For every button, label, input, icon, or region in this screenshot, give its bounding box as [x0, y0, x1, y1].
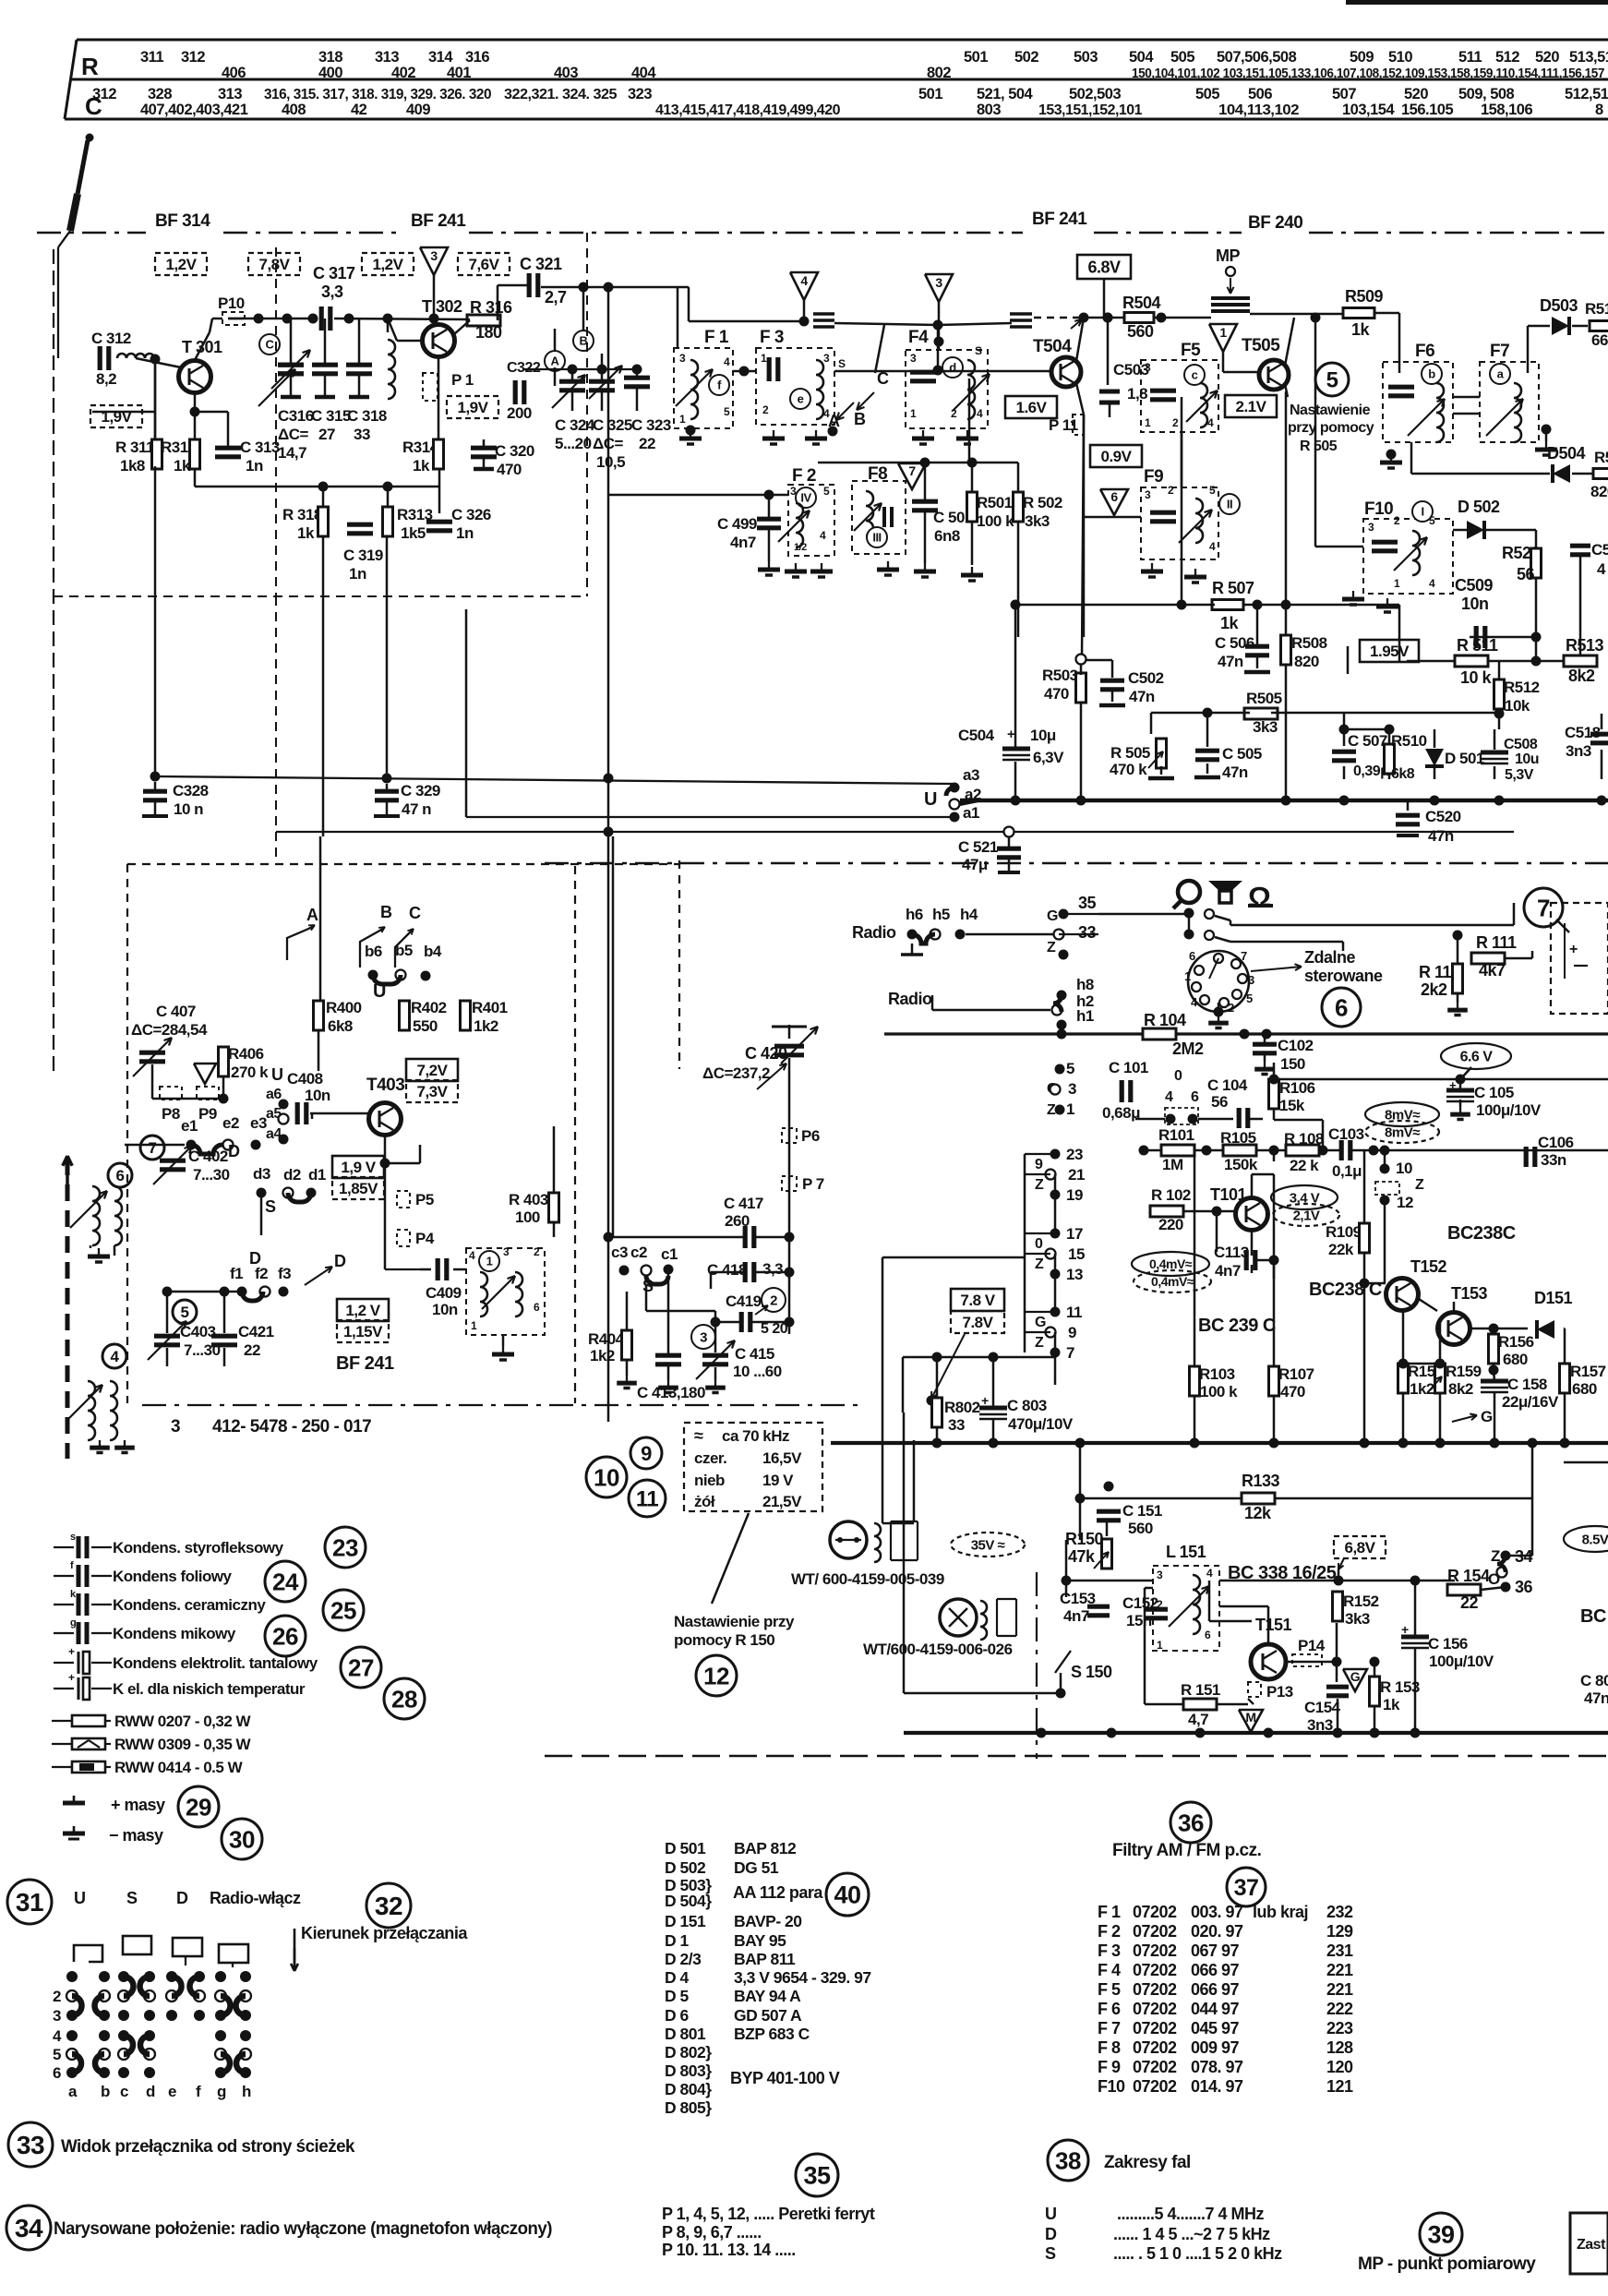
- wire F10 to D502: [1453, 529, 1467, 532]
- svg-text:C 325: C 325: [593, 416, 632, 434]
- svg-text:2: 2: [1394, 514, 1400, 527]
- svg-text:121: 121: [1326, 2077, 1353, 2096]
- svg-text:2: 2: [951, 407, 957, 420]
- svg-text:10: 10: [594, 1463, 619, 1491]
- voltage 1.95V: [1360, 640, 1419, 662]
- svg-text:T151: T151: [1255, 1616, 1292, 1634]
- voltage 2.1V: [1225, 395, 1277, 417]
- resistor R152: [1333, 1592, 1343, 1621]
- svg-text:c3: c3: [611, 1244, 628, 1261]
- svg-text:7,8V: 7,8V: [259, 256, 291, 273]
- F3 cap: [767, 357, 772, 381]
- svg-text:328: 328: [148, 86, 172, 102]
- svg-text:Narysowane położenie: radio: Narysowane położenie: radio wyłączone (m…: [54, 2219, 552, 2239]
- emitter to F9: [1084, 516, 1141, 519]
- svg-text:2: 2: [53, 1988, 61, 2005]
- resistor R156: [1489, 1334, 1499, 1364]
- svg-text:D: D: [334, 1252, 346, 1270]
- trunk x659: [607, 287, 610, 1422]
- svg-text:C 326: C 326: [451, 506, 491, 523]
- svg-text:1.6V: 1.6V: [1016, 399, 1048, 416]
- svg-text:1,2 V: 1,2 V: [345, 1302, 380, 1319]
- svg-text:6k8: 6k8: [328, 1017, 353, 1035]
- resistor R400: [314, 1001, 324, 1030]
- svg-text:156.105: 156.105: [1401, 102, 1453, 118]
- svg-text:020. 97: 020. 97: [1191, 1922, 1243, 1941]
- svg-text:U: U: [373, 981, 386, 1002]
- svg-text:D 1: D 1: [665, 1931, 690, 1950]
- rail over filters: [689, 320, 804, 323]
- svg-text:33: 33: [1078, 923, 1097, 942]
- leader to nastawienie: [712, 1513, 749, 1604]
- svg-text:470: 470: [1044, 685, 1069, 703]
- svg-text:4: 4: [469, 1249, 475, 1262]
- svg-text:501: 501: [918, 86, 942, 102]
- legend - masy: [73, 1826, 76, 1833]
- svg-text:F 1: F 1: [1098, 1903, 1121, 1921]
- wire bottoms to bus: [1343, 766, 1346, 779]
- svg-text:+: +: [1449, 1078, 1457, 1092]
- svg-text:158,106: 158,106: [1481, 102, 1532, 118]
- heavy bus y1877: [904, 1731, 1608, 1735]
- svg-text:żół: żół: [694, 1493, 715, 1510]
- wire T504 emitter down: [1082, 415, 1084, 659]
- svg-text:1,8: 1,8: [1127, 385, 1147, 403]
- svg-text:b: b: [1428, 367, 1435, 381]
- bus y1584 right: [1564, 1461, 1608, 1464]
- svg-text:33: 33: [948, 1416, 965, 1434]
- left coils 4: [88, 1381, 95, 1440]
- voltage 1,9V T302: [447, 396, 498, 418]
- svg-text:R401: R401: [472, 999, 508, 1016]
- svg-text:Zast: Zast: [1577, 2237, 1606, 2253]
- dash top big box: [127, 863, 679, 865]
- svg-text:10 n: 10 n: [174, 800, 203, 818]
- wire D504: [1410, 442, 1413, 474]
- svg-text:318: 318: [318, 49, 342, 66]
- wire y1500: [927, 1396, 937, 1406]
- svg-text:C 499: C 499: [717, 515, 757, 533]
- svg-text:560: 560: [1128, 1520, 1153, 1537]
- C499 ground: [768, 561, 770, 570]
- svg-text:MP - punkt pomiarowy: MP - punkt pomiarowy: [1358, 2254, 1536, 2274]
- filter box osc: [466, 1248, 545, 1335]
- svg-text:C 320: C 320: [495, 442, 534, 460]
- rail mid: [834, 323, 938, 325]
- svg-text:3: 3: [171, 1417, 180, 1437]
- svg-text:10: 10: [1396, 1160, 1412, 1177]
- svg-text:a3: a3: [963, 766, 979, 784]
- svg-text:4: 4: [800, 273, 808, 288]
- wires T301 area: [194, 393, 197, 439]
- svg-text:6: 6: [1191, 1089, 1199, 1105]
- F10 ground: [1352, 591, 1354, 599]
- svg-text:313: 313: [375, 49, 399, 66]
- svg-text:C 521: C 521: [958, 838, 998, 856]
- voltage 1.6V: [1005, 396, 1057, 418]
- svg-text:Kondens. ceramiczny: Kondens. ceramiczny: [113, 1596, 266, 1614]
- svg-text:P9: P9: [198, 1105, 217, 1123]
- voltage 1,9V 1,85V: [332, 1156, 384, 1178]
- capacitor C326: [426, 520, 452, 524]
- svg-text:3: 3: [430, 248, 438, 263]
- svg-text:313: 313: [218, 86, 242, 102]
- capacitor C415: [702, 1353, 728, 1358]
- dashed box 300 section: [275, 247, 277, 596]
- svg-text:Zdalne: Zdalne: [1304, 948, 1355, 967]
- wire R509 right: [1374, 312, 1399, 315]
- svg-text:104,113,102: 104,113,102: [1218, 102, 1299, 118]
- wire R503 column: [1080, 703, 1083, 800]
- svg-text:34: 34: [15, 2214, 43, 2242]
- svg-text:BAP 811: BAP 811: [734, 1950, 796, 1968]
- svg-text:R501: R501: [977, 494, 1013, 511]
- svg-text:C: C: [409, 904, 421, 922]
- svg-text:21,5V: 21,5V: [762, 1493, 802, 1510]
- svg-text:42: 42: [351, 102, 367, 118]
- capacitor C520: [1407, 800, 1410, 811]
- svg-text:47n: 47n: [1129, 688, 1155, 705]
- svg-text:19 V: 19 V: [762, 1472, 794, 1489]
- cap group wires: [554, 367, 557, 386]
- svg-text:d: d: [146, 2083, 155, 2100]
- svg-text:S: S: [126, 1889, 138, 1907]
- svg-text:lub kraj: lub kraj: [1253, 1903, 1308, 1921]
- svg-text:AA 112 para: AA 112 para: [733, 1883, 823, 1902]
- circ 34: [6, 2206, 51, 2250]
- svg-text:1: 1: [1394, 577, 1400, 590]
- svg-text:820: 820: [1294, 653, 1319, 670]
- svg-text:BF 314: BF 314: [155, 211, 210, 231]
- icon dial lamp: [1178, 881, 1200, 903]
- svg-text:406: 406: [222, 65, 246, 81]
- svg-text:R103: R103: [1199, 1365, 1235, 1383]
- svg-text:6: 6: [1110, 489, 1118, 504]
- svg-text:S: S: [975, 344, 982, 357]
- svg-text:223: 223: [1326, 2019, 1353, 2038]
- svg-text:413,415,417,418,419,499,420: 413,415,417,418,419,499,420: [655, 102, 840, 118]
- svg-text:22μ/16V: 22μ/16V: [1502, 1393, 1559, 1411]
- svg-text:R 104: R 104: [1144, 1011, 1186, 1029]
- svg-text:F5: F5: [1181, 341, 1201, 360]
- wire y1246: [1143, 1149, 1161, 1152]
- vertical feeds: [154, 466, 157, 776]
- svg-text:R510: R510: [1391, 732, 1427, 750]
- svg-text:C 105: C 105: [1474, 1084, 1514, 1101]
- svg-text:F 2: F 2: [792, 466, 816, 486]
- svg-text:a1: a1: [963, 804, 979, 822]
- svg-text:1k2: 1k2: [474, 1017, 498, 1035]
- svg-text:16,5V: 16,5V: [762, 1449, 802, 1467]
- svg-text:C 415: C 415: [735, 1345, 774, 1363]
- svg-text:D151: D151: [1534, 1289, 1573, 1307]
- svg-text:6: 6: [1205, 1629, 1211, 1641]
- svg-text:R101: R101: [1158, 1126, 1194, 1144]
- svg-text:5: 5: [1246, 992, 1253, 1005]
- svg-text:4: 4: [1165, 1089, 1173, 1105]
- svg-text:29: 29: [186, 1793, 211, 1821]
- svg-text:4n7: 4n7: [1063, 1607, 1089, 1625]
- svg-text:P6: P6: [801, 1127, 820, 1145]
- svg-text:12: 12: [703, 1662, 729, 1689]
- svg-text:1,2V: 1,2V: [373, 256, 404, 273]
- svg-text:220: 220: [1158, 1216, 1183, 1233]
- svg-text:1n: 1n: [349, 565, 366, 583]
- svg-text:504: 504: [1129, 49, 1154, 66]
- capacitor C318: [346, 363, 372, 367]
- svg-text:R 154: R 154: [1447, 1567, 1490, 1585]
- svg-text:F 3: F 3: [760, 328, 784, 347]
- wires P8 P9: [152, 1098, 223, 1100]
- svg-text:R503: R503: [1042, 667, 1078, 684]
- svg-text:c: c: [1192, 368, 1198, 382]
- coil near T302: [388, 340, 395, 399]
- svg-text:F10: F10: [1364, 499, 1393, 519]
- svg-text:505: 505: [1195, 86, 1219, 102]
- voltage 7,2V 7,3V: [406, 1059, 458, 1081]
- svg-text:I: I: [1421, 505, 1423, 519]
- wires T101: [1183, 1210, 1235, 1213]
- svg-text:D503: D503: [1540, 296, 1578, 315]
- svg-text:24: 24: [272, 1568, 299, 1595]
- svg-text:1,15V: 1,15V: [343, 1323, 383, 1340]
- svg-text:C502: C502: [1128, 669, 1164, 687]
- svg-text:7: 7: [1537, 894, 1550, 921]
- svg-text:1: 1: [761, 352, 767, 365]
- svg-text:1k: 1k: [297, 524, 315, 542]
- svg-text:4: 4: [1207, 416, 1214, 429]
- svg-text:231: 231: [1326, 1941, 1353, 1960]
- svg-text:Ω: Ω: [1248, 881, 1270, 913]
- svg-text:21: 21: [1068, 1166, 1085, 1184]
- svg-text:509: 509: [1350, 49, 1374, 66]
- svg-text:C316: C316: [278, 407, 314, 425]
- wire R403: [553, 1126, 556, 1193]
- svg-text:F 2: F 2: [1098, 1922, 1121, 1941]
- svg-text:Radio-włącz: Radio-włącz: [210, 1889, 301, 1907]
- svg-text:22k: 22k: [1328, 1241, 1354, 1258]
- circ 35: [796, 2154, 838, 2196]
- svg-text:15n: 15n: [1126, 1612, 1152, 1629]
- svg-text:314: 314: [428, 49, 453, 66]
- svg-text:przy pomocy: przy pomocy: [1288, 420, 1374, 436]
- svg-text:P13: P13: [1266, 1683, 1293, 1701]
- varcap arrow: [258, 369, 295, 406]
- dash separator mid y935: [545, 862, 1608, 864]
- wire C502 column: [1111, 660, 1114, 678]
- Zast box: [1570, 2213, 1608, 2274]
- line y901 C521: [276, 831, 1514, 833]
- resistor R802: [932, 1398, 942, 1427]
- svg-text:Z: Z: [1035, 1256, 1044, 1272]
- svg-text:512: 512: [1495, 49, 1519, 66]
- arrow 7.8 down: [931, 1334, 965, 1399]
- svg-text:P14: P14: [1298, 1637, 1326, 1654]
- svg-text:R 502: R 502: [1023, 494, 1062, 511]
- svg-text:Kondens mikowy: Kondens mikowy: [113, 1625, 236, 1642]
- svg-text:2: 2: [534, 1245, 540, 1258]
- svg-text:100μ/10V: 100μ/10V: [1476, 1101, 1542, 1119]
- svg-text:RWW 0309 - 0,35 W: RWW 0309 - 0,35 W: [114, 1736, 252, 1753]
- circ 3: [691, 1325, 715, 1349]
- svg-text:1k: 1k: [1220, 614, 1240, 632]
- svg-text:1: 1: [1184, 969, 1191, 983]
- wires T151: [1209, 1620, 1252, 1623]
- matrix column g: [215, 1971, 226, 1982]
- svg-text:R 151: R 151: [1181, 1681, 1220, 1699]
- svg-text:BF 241: BF 241: [1032, 210, 1087, 229]
- legend grounds top: [99, 1440, 101, 1448]
- svg-text:d2: d2: [283, 1166, 301, 1184]
- svg-text:C: C: [266, 338, 275, 352]
- svg-text:R157: R157: [1570, 1363, 1606, 1380]
- svg-text:DG 51: DG 51: [734, 1858, 779, 1877]
- svg-text:R 318: R 318: [282, 506, 322, 523]
- svg-text:8k2: 8k2: [1448, 1380, 1473, 1398]
- svg-text:3: 3: [790, 485, 797, 498]
- svg-text:+ masy: + masy: [111, 1796, 165, 1814]
- svg-text:C 319: C 319: [343, 547, 383, 564]
- wire h4 right: [966, 933, 1055, 936]
- capacitor C319: [347, 523, 373, 527]
- svg-text:4n7: 4n7: [1215, 1262, 1241, 1280]
- circ4: [102, 1344, 126, 1368]
- svg-text:P 10. 11. 13. 14 .....: P 10. 11. 13. 14 .....: [662, 2241, 796, 2259]
- circ 39: [1420, 2213, 1462, 2255]
- svg-text:312: 312: [181, 49, 205, 66]
- legend cap symbol k: [54, 1604, 74, 1605]
- svg-text:d: d: [949, 361, 956, 375]
- svg-text:28: 28: [391, 1685, 417, 1713]
- svg-text:R133: R133: [1242, 1472, 1280, 1490]
- svg-text:5: 5: [823, 485, 830, 498]
- svg-text:II: II: [1227, 498, 1232, 511]
- svg-text:470: 470: [1280, 1383, 1305, 1400]
- svg-text:P10: P10: [218, 295, 245, 312]
- svg-text:R109: R109: [1326, 1223, 1362, 1241]
- legend circ 25: [323, 1590, 364, 1630]
- svg-text:Z: Z: [1415, 1177, 1424, 1193]
- svg-text:MP: MP: [1216, 246, 1240, 265]
- svg-text:11: 11: [1066, 1304, 1082, 1321]
- svg-text:F10: F10: [1098, 2077, 1125, 2096]
- T504 collector diagonal: [1076, 318, 1084, 361]
- capacitor C508: [1481, 751, 1508, 755]
- svg-text:ΔC=237,2: ΔC=237,2: [702, 1064, 770, 1082]
- svg-text:2: 2: [1157, 1598, 1163, 1611]
- svg-text:F 5: F 5: [1098, 1980, 1121, 1999]
- svg-text:470μ/10V: 470μ/10V: [1008, 1415, 1074, 1433]
- svg-text:R505: R505: [1246, 690, 1282, 707]
- resistor R153: [1370, 1677, 1380, 1706]
- svg-text:32: 32: [375, 1892, 402, 1920]
- D arrow right: [305, 1267, 332, 1285]
- svg-text:7.8V: 7.8V: [963, 1314, 994, 1331]
- svg-text:35: 35: [803, 2162, 831, 2190]
- svg-text:4: 4: [977, 407, 983, 420]
- 6.8V dashed: [1334, 1536, 1386, 1558]
- DIN socket: [1188, 951, 1249, 1012]
- capacitor C421: [211, 1334, 237, 1339]
- wire rail T504: [1084, 317, 1124, 319]
- svg-text:36: 36: [1515, 1578, 1533, 1596]
- capacitor C413: [655, 1353, 681, 1358]
- svg-text:316, 315. 317, 318. 319, 329.: 316, 315. 317, 318. 319, 329. 326. 320: [264, 87, 491, 102]
- svg-text:2: 2: [1172, 416, 1179, 429]
- svg-text:07202: 07202: [1133, 1903, 1177, 1921]
- svg-text:3: 3: [1145, 361, 1151, 374]
- antenna 3 top: [420, 247, 448, 275]
- svg-text:R107: R107: [1278, 1365, 1314, 1383]
- svg-text:10n: 10n: [432, 1301, 458, 1318]
- oval 8.5V cut: [1564, 1526, 1608, 1552]
- svg-text:07202: 07202: [1133, 2058, 1177, 2076]
- svg-text:6,3V: 6,3V: [1033, 749, 1064, 766]
- svg-text:BF 240: BF 240: [1248, 213, 1302, 233]
- svg-text:IV: IV: [800, 491, 811, 505]
- svg-text:h8: h8: [1076, 976, 1094, 993]
- svg-text:501: 501: [964, 49, 988, 66]
- svg-text:502: 502: [1014, 49, 1038, 66]
- svg-text:680: 680: [1503, 1351, 1528, 1368]
- osc gnd: [502, 1335, 505, 1346]
- voltage 0.9V: [1090, 445, 1142, 467]
- circ 31: [7, 1880, 52, 1924]
- svg-text:22: 22: [639, 435, 655, 452]
- resistor R501: [967, 492, 978, 522]
- switch tabs: [74, 1945, 102, 1962]
- svg-text:33: 33: [17, 2131, 44, 2159]
- svg-text:D 502: D 502: [665, 1858, 706, 1877]
- svg-text:...... 1 4 5 ...~2 7 5 kHz: ...... 1 4 5 ...~2 7 5 kHz: [1113, 2225, 1270, 2243]
- diode D501: [1425, 749, 1444, 766]
- svg-text:Z: Z: [1047, 1102, 1056, 1118]
- inductor L301: [117, 354, 154, 358]
- svg-text:BC 3: BC 3: [1580, 1606, 1608, 1627]
- svg-text:ca 70 kHz: ca 70 kHz: [722, 1427, 789, 1445]
- svg-text:5: 5: [1326, 368, 1338, 393]
- svg-text:6: 6: [1189, 949, 1195, 963]
- capacitor C324: [559, 379, 585, 384]
- circ 40: [826, 1873, 869, 1916]
- svg-text:Z: Z: [1035, 1335, 1044, 1351]
- svg-text:4: 4: [820, 529, 826, 542]
- svg-text:066 97: 066 97: [1191, 1961, 1240, 1979]
- svg-text:38: 38: [1055, 2146, 1081, 2174]
- line y885 a1: [466, 816, 954, 818]
- svg-text:C103: C103: [1328, 1125, 1364, 1143]
- svg-text:25: 25: [330, 1596, 356, 1624]
- svg-text:C 315: C 315: [311, 407, 351, 425]
- svg-text:D: D: [249, 1249, 261, 1268]
- svg-text:D 501: D 501: [1445, 750, 1484, 767]
- F9 grounds: [1151, 563, 1153, 571]
- svg-text:10 k: 10 k: [1460, 668, 1493, 687]
- svg-text:pomocy R 150: pomocy R 150: [674, 1631, 774, 1649]
- matrix column a: [66, 1971, 78, 1982]
- svg-text:R512: R512: [1504, 679, 1540, 696]
- svg-text:C 104: C 104: [1207, 1076, 1248, 1094]
- svg-text:+: +: [1401, 1622, 1409, 1637]
- G arrow: [1452, 1415, 1477, 1422]
- svg-text:3k3: 3k3: [1253, 718, 1278, 736]
- svg-text:C5: C5: [1591, 541, 1608, 559]
- svg-text:S: S: [838, 357, 846, 370]
- svg-text:D: D: [1045, 2225, 1057, 2243]
- resistor R508: [1281, 635, 1291, 665]
- svg-text:312: 312: [92, 86, 116, 102]
- svg-text:1: 1: [679, 413, 686, 426]
